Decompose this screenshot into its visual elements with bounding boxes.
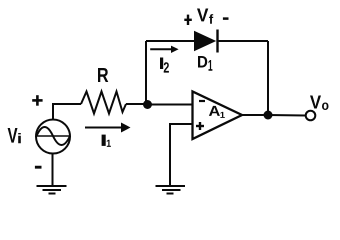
wire: source bottom to ground — [52, 154, 54, 187]
label Vo — [310, 96, 329, 111]
ground (under op-amp + input) — [156, 186, 186, 194]
wire: node B to output terminal — [268, 114, 306, 117]
op-amp A1 — [193, 92, 243, 140]
wire: node A to op-amp inverting input — [147, 104, 193, 106]
label R — [98, 68, 108, 82]
label I1 — [102, 135, 111, 147]
wire: resistor to node A — [126, 103, 150, 105]
node A (summing junction dot) — [143, 100, 152, 109]
wire: source top to resistor — [53, 104, 81, 120]
current arrow I1 — [85, 123, 131, 133]
wire: op-amp output to node B — [242, 114, 268, 116]
wire: non-inverting input to ground branch — [170, 124, 193, 186]
wire: diode cathode to right feedback corner — [219, 40, 269, 42]
ground (under source) — [37, 186, 67, 194]
wire: node A up to feedback branch — [145, 41, 147, 105]
minus sign of source — [35, 166, 42, 169]
label D1 — [198, 56, 212, 71]
plus sign of source — [32, 95, 42, 106]
label + Vf - (diode voltage) — [184, 9, 228, 26]
wire: feedback right vertical to output node — [267, 41, 269, 115]
resistor R (zigzag) — [81, 92, 126, 114]
source Vi (AC source circle with sine) — [36, 120, 70, 154]
output terminal (open circle) — [306, 111, 316, 121]
node B (output junction dot) — [264, 111, 273, 120]
current arrow I2 — [150, 46, 178, 53]
label Vi — [8, 128, 21, 143]
diode D1 — [195, 30, 218, 53]
label I2 — [160, 58, 169, 73]
wire: feedback top left segment to diode anode — [146, 40, 195, 42]
